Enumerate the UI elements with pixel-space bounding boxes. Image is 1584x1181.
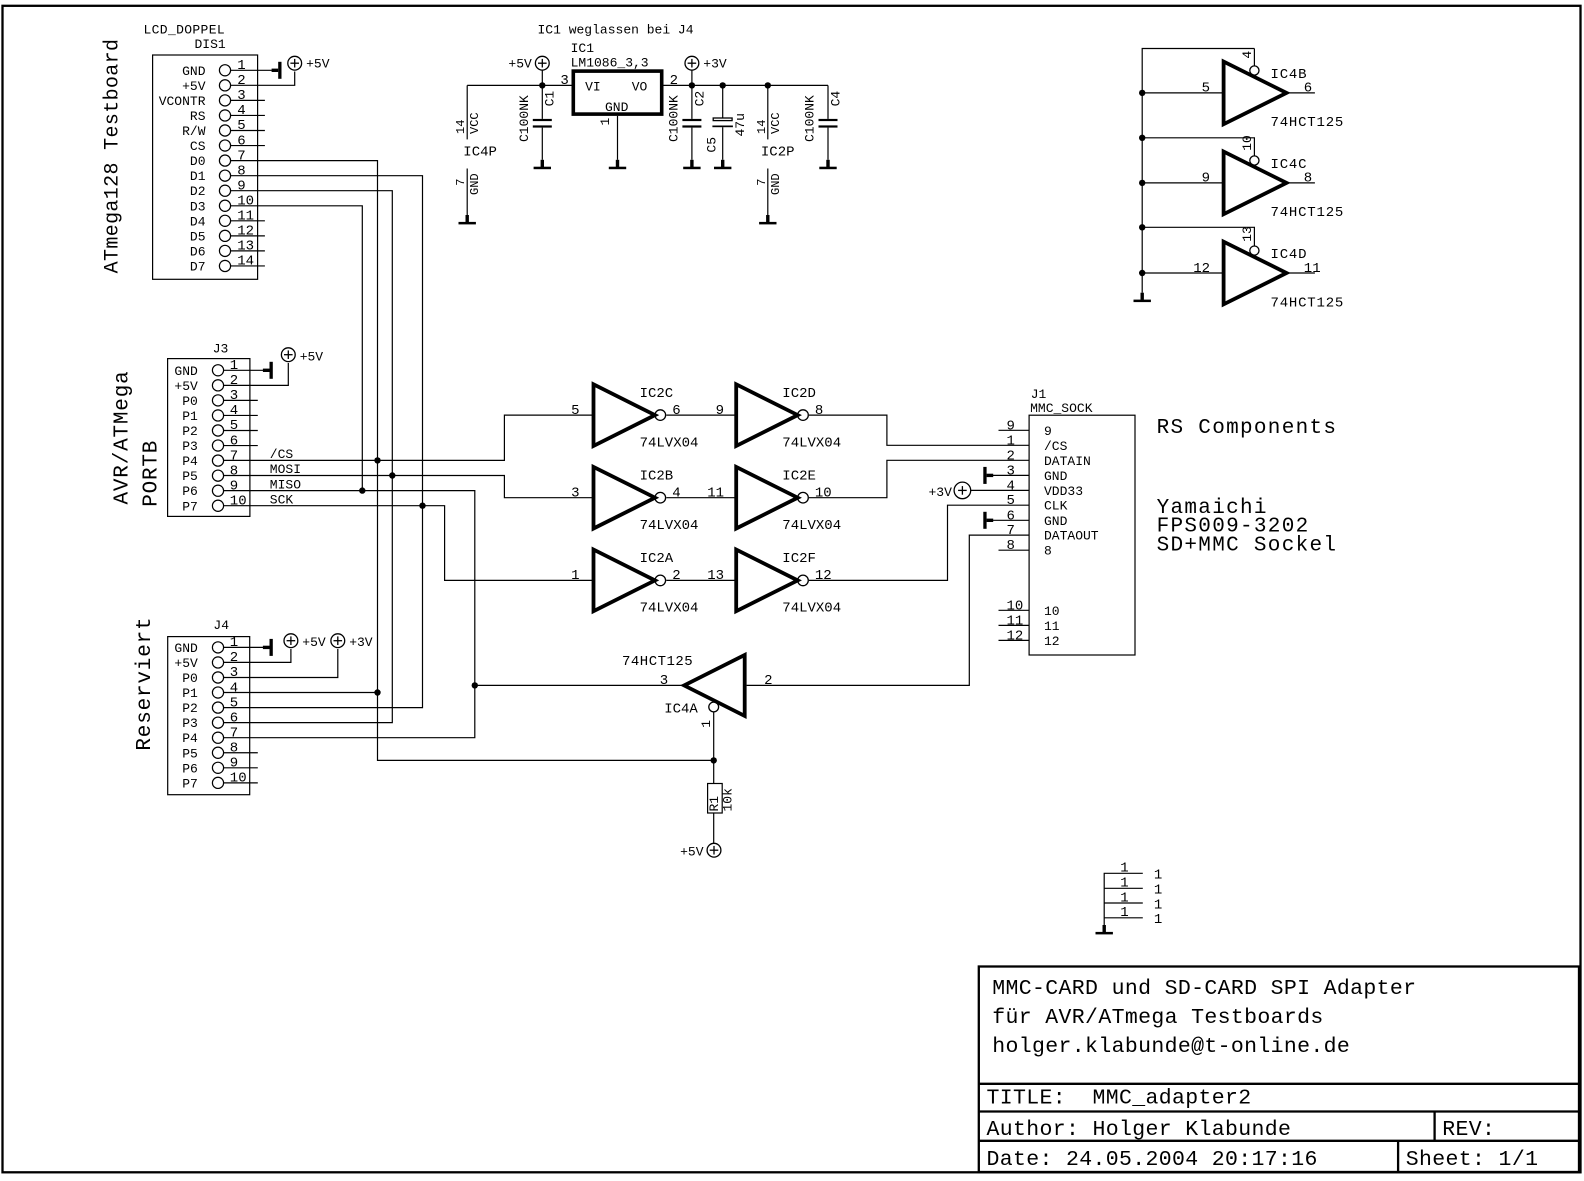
wire DIS1 pin1 GND and ground symbol	[231, 69, 272, 71]
DIS1 pin 10 (D3)	[219, 200, 230, 211]
junction MOSI at D2 vertical	[389, 472, 395, 478]
svg-text:SD+MMC Sockel: SD+MMC Sockel	[1157, 534, 1338, 557]
svg-text:8: 8	[230, 463, 238, 479]
junction SCK at D1 vertical	[419, 503, 425, 509]
svg-text:IC2P: IC2P	[761, 144, 795, 160]
J3 pin 3 (P0)	[212, 395, 223, 406]
svg-text:10: 10	[230, 771, 247, 787]
svg-text:IC2A: IC2A	[640, 551, 674, 567]
IC4B enable bubble	[1250, 66, 1259, 75]
DIS1 pin 8 (D1)	[219, 170, 230, 181]
svg-text:8: 8	[1044, 544, 1052, 559]
svg-text:Author: Holger Klabunde: Author: Holger Klabunde	[987, 1118, 1292, 1142]
svg-text:C2: C2	[692, 91, 707, 107]
buffer IC4A triangle (points left)	[684, 655, 745, 716]
svg-text:14: 14	[237, 254, 254, 270]
svg-text:10k: 10k	[721, 788, 736, 812]
svg-text:1: 1	[1120, 905, 1128, 921]
svg-text:4: 4	[672, 486, 680, 502]
svg-text:C5: C5	[705, 137, 720, 153]
junction rail at IC4D enable	[1139, 224, 1145, 230]
svg-text:IC2E: IC2E	[782, 468, 816, 484]
wire IC2A output to IC2F input	[666, 579, 736, 581]
wire input of IC4C	[1142, 182, 1223, 184]
svg-text:5: 5	[1202, 81, 1210, 97]
IC4D enable bubble	[1250, 246, 1259, 255]
ground below C1	[541, 160, 544, 167]
DIS1 pin 13 (D6)	[219, 245, 230, 256]
svg-text:3: 3	[230, 665, 238, 681]
svg-text:AVR/ATMega: AVR/ATMega	[111, 370, 134, 504]
wire output of IC4D	[1287, 272, 1315, 274]
inverter IC2D triangle	[736, 384, 798, 446]
svg-text:1: 1	[1120, 876, 1128, 892]
svg-text:4: 4	[230, 680, 238, 696]
J4 pin 8 (P5)	[212, 747, 223, 758]
svg-text:7: 7	[755, 179, 769, 186]
DIS1 pin 1 (GND)	[219, 65, 230, 76]
wire output of IC4B	[1287, 92, 1315, 94]
svg-text:9: 9	[1044, 424, 1052, 439]
svg-text:IC4D: IC4D	[1271, 247, 1308, 263]
svg-text:IC2B: IC2B	[640, 468, 674, 484]
wire +5V rail into IC1 VI	[467, 84, 571, 86]
supply +3V at J1 VDD33	[954, 482, 971, 499]
J3 pin 2 (+5V)	[212, 380, 223, 391]
DIS1 pin 5 (R/W)	[219, 125, 230, 136]
junction /CS at D0 vertical	[374, 457, 380, 463]
svg-text:47u: 47u	[733, 113, 748, 136]
J4 pin 10 (P7)	[212, 777, 223, 788]
wire IC2F output to J1 CLK pin 5	[809, 505, 1029, 580]
junction MISO at D3 vertical	[359, 487, 365, 493]
svg-text:D5: D5	[190, 229, 206, 244]
svg-text:9: 9	[230, 478, 238, 494]
svg-text:IC4B: IC4B	[1271, 67, 1308, 83]
wire IC2E output to J1 DATAIN pin 2	[809, 460, 1029, 497]
capacitor C5 47u electrolytic	[722, 85, 724, 117]
svg-text:74LVX04: 74LVX04	[782, 435, 841, 451]
wire SCK from J3 P7 to IC2A input	[223, 506, 593, 581]
svg-text:7: 7	[230, 725, 238, 741]
connector J3 box	[168, 359, 250, 517]
connector DIS1 box	[153, 55, 258, 279]
DIS1 pin 4 (RS)	[219, 110, 230, 121]
svg-text:11: 11	[1007, 613, 1024, 629]
J3 pin 9 (P6)	[212, 485, 223, 496]
svg-text:für AVR/ATmega Testboards: für AVR/ATmega Testboards	[992, 1006, 1323, 1030]
junction at +3V	[689, 82, 695, 88]
svg-text:P1: P1	[182, 686, 198, 701]
wire IC1 GND pin 1	[617, 116, 619, 160]
wire J3 pin2 to +5V	[223, 363, 288, 385]
J3 pin 4 (P1)	[212, 410, 223, 421]
svg-text:10: 10	[230, 493, 247, 509]
svg-text:9: 9	[1007, 418, 1015, 434]
svg-text:11: 11	[1044, 619, 1060, 634]
svg-text:P6: P6	[182, 484, 198, 499]
svg-text:IC2F: IC2F	[782, 551, 816, 567]
svg-text:GND: GND	[174, 641, 198, 656]
svg-text:7: 7	[230, 448, 238, 464]
J3 pin 10 (P7)	[212, 500, 223, 511]
svg-text:C100NK: C100NK	[517, 95, 532, 142]
svg-text:LM1086_3,3: LM1086_3,3	[571, 55, 649, 70]
svg-text:5: 5	[1007, 493, 1015, 509]
svg-text:1: 1	[1154, 897, 1162, 913]
svg-text:+5V: +5V	[182, 79, 206, 94]
shield pins connector (4 stubs labelled 1)	[1104, 873, 1143, 925]
supply +3V at J4	[331, 634, 345, 648]
svg-text:VI: VI	[585, 79, 601, 94]
svg-text:P3: P3	[182, 439, 198, 454]
supply +3V above C2	[685, 56, 699, 70]
svg-text:6: 6	[672, 403, 680, 419]
wire J3 pin1 GND and ground symbol	[224, 369, 264, 371]
svg-text:1: 1	[237, 58, 245, 74]
svg-text:holger.klabunde@t-online.de: holger.klabunde@t-online.de	[992, 1035, 1350, 1059]
svg-text:1: 1	[1154, 912, 1162, 928]
title block outer box	[979, 967, 1579, 1173]
wire input of IC4D	[1142, 272, 1223, 274]
svg-text:12: 12	[1193, 261, 1210, 277]
ground below shield pins	[1103, 925, 1106, 932]
svg-text:P2: P2	[182, 701, 198, 716]
svg-text:10: 10	[1044, 604, 1060, 619]
svg-text:P0: P0	[182, 394, 198, 409]
svg-text:C100NK: C100NK	[666, 95, 681, 142]
svg-text:5: 5	[230, 418, 238, 434]
svg-text:8: 8	[237, 163, 245, 179]
svg-text:13: 13	[707, 568, 724, 584]
svg-text:GND: GND	[182, 64, 206, 79]
svg-text:IC1: IC1	[571, 41, 595, 56]
svg-text:74LVX04: 74LVX04	[640, 601, 699, 617]
capacitor C4 100nF	[827, 85, 829, 119]
title block Sheet divider	[1397, 1141, 1399, 1172]
wire J4 P1 to /CS vertical	[223, 692, 377, 694]
svg-text:DIS1: DIS1	[195, 37, 226, 52]
svg-text:74LVX04: 74LVX04	[782, 518, 841, 534]
shield stub 3	[1104, 902, 1143, 904]
power symbol IC2P GND pin	[767, 169, 769, 216]
svg-text:12: 12	[237, 224, 254, 240]
ground below IC1	[616, 160, 619, 167]
J3 pin 8 (P5)	[212, 470, 223, 481]
wire IC4C enable	[1142, 138, 1254, 156]
svg-text:MMC-CARD und SD-CARD SPI Adapt: MMC-CARD und SD-CARD SPI Adapter	[992, 977, 1416, 1001]
J4 pin 9 (P6)	[212, 762, 223, 773]
svg-text:1: 1	[1120, 861, 1128, 877]
svg-text:D7: D7	[190, 259, 206, 274]
svg-text:+5V: +5V	[680, 844, 704, 859]
svg-text:DATAOUT: DATAOUT	[1044, 529, 1099, 544]
svg-text:P5: P5	[182, 746, 198, 761]
svg-text:VCONTR: VCONTR	[159, 94, 206, 109]
svg-text:74HCT125: 74HCT125	[1271, 295, 1345, 311]
svg-text:3: 3	[237, 88, 245, 104]
svg-text:3: 3	[560, 73, 568, 89]
wire IC2C output to IC2D input	[666, 414, 736, 416]
svg-text:6: 6	[230, 710, 238, 726]
svg-text:P7: P7	[182, 499, 198, 514]
svg-text:VCC: VCC	[769, 112, 783, 134]
svg-text:DATAIN: DATAIN	[1044, 454, 1091, 469]
DIS1 pin 9 (D2)	[219, 185, 230, 196]
svg-text:IC4P: IC4P	[463, 144, 497, 160]
inverter IC2D output bubble	[798, 410, 809, 421]
svg-text:14: 14	[755, 120, 769, 134]
wire +3V to J1 pin4	[971, 489, 1029, 491]
svg-text:+5V: +5V	[302, 635, 326, 650]
wire J1 pin3 GND and ground symbol	[983, 467, 986, 484]
DIS1 pin 2 (+5V)	[219, 80, 230, 91]
svg-text:P5: P5	[182, 469, 198, 484]
svg-text:C1: C1	[543, 91, 558, 107]
J3 pin 1 (GND)	[212, 365, 223, 376]
ground below C4	[826, 160, 829, 167]
svg-text:4: 4	[230, 403, 238, 419]
J4 pin 1 (GND)	[212, 642, 223, 653]
regulator IC1 box	[573, 71, 661, 114]
svg-text:13: 13	[1240, 226, 1255, 242]
wire IC1 VO output rail	[664, 84, 829, 86]
junction rail at IC4C enable	[1139, 135, 1145, 141]
power symbol IC2P VCC pin	[767, 85, 769, 139]
J4 pin 4 (P1)	[212, 687, 223, 698]
svg-text:74LVX04: 74LVX04	[640, 435, 699, 451]
svg-text:Sheet: 1/1: Sheet: 1/1	[1406, 1148, 1539, 1172]
supply +5V above C1	[535, 56, 549, 70]
svg-text:2: 2	[1007, 448, 1015, 464]
svg-text:PORTB: PORTB	[140, 440, 163, 507]
shield stub 4	[1104, 917, 1143, 919]
wire J4 pin3 to +3V	[223, 649, 337, 678]
svg-text:RS Components: RS Components	[1157, 417, 1338, 440]
svg-text:11: 11	[1304, 261, 1321, 277]
junction /CS at J4 P1	[374, 689, 380, 695]
svg-text:2: 2	[237, 73, 245, 89]
svg-text:8: 8	[1304, 171, 1312, 187]
wire IC4D enable	[1142, 227, 1254, 246]
svg-text:5: 5	[237, 118, 245, 134]
IC4C enable bubble	[1250, 156, 1259, 165]
inverter IC2C output bubble	[655, 410, 666, 421]
svg-text:9: 9	[1202, 171, 1210, 187]
DIS1 pin 6 (CS)	[219, 140, 230, 151]
wire +5V symbol to rail	[541, 70, 543, 85]
svg-text:P7: P7	[182, 776, 198, 791]
DIS1 pin 12 (D5)	[219, 230, 230, 241]
svg-text:74HCT125: 74HCT125	[622, 654, 693, 670]
svg-text:GND: GND	[468, 173, 482, 195]
svg-text:7: 7	[454, 179, 468, 186]
ground below IC4P	[466, 215, 469, 222]
svg-text:J1: J1	[1031, 387, 1047, 402]
inverter IC2E triangle	[736, 467, 798, 529]
junction /CS at IC4A enable and R1	[711, 757, 717, 763]
svg-text:74LVX04: 74LVX04	[640, 518, 699, 534]
buffer IC4C triangle	[1224, 152, 1287, 215]
wire J4 pin2 to +5V	[223, 649, 291, 662]
svg-text:14: 14	[454, 120, 468, 134]
svg-text:/CS: /CS	[1044, 439, 1068, 454]
svg-text:1: 1	[1154, 883, 1162, 899]
svg-text:74HCT125: 74HCT125	[1271, 115, 1345, 131]
svg-text:4: 4	[1240, 51, 1255, 59]
svg-text:10: 10	[237, 193, 254, 209]
svg-text:IC4C: IC4C	[1271, 157, 1308, 173]
buffer IC4D triangle	[1224, 242, 1287, 305]
svg-text:6: 6	[1007, 508, 1015, 524]
wire MISO from J3 P6	[223, 491, 474, 738]
junction at C1/+5V	[539, 82, 545, 88]
svg-text:P0: P0	[182, 671, 198, 686]
wire R1 to +5V	[713, 813, 715, 843]
svg-text:3: 3	[1007, 463, 1015, 479]
svg-text:4: 4	[1007, 478, 1015, 494]
J4 pin 6 (P3)	[212, 717, 223, 728]
svg-text:P6: P6	[182, 761, 198, 776]
J4 pin 5 (P2)	[212, 702, 223, 713]
IC4A enable bubble	[709, 702, 719, 712]
svg-text:10: 10	[815, 486, 832, 502]
ground below C5	[721, 160, 724, 167]
connector J1 box	[1029, 415, 1135, 655]
wire IC4A input from J1 DATAOUT	[747, 535, 1030, 685]
svg-text:7: 7	[1007, 523, 1015, 539]
wire output of IC4C	[1287, 182, 1315, 184]
svg-text:+5V: +5V	[300, 350, 324, 365]
J3 pin 7 (P4)	[212, 455, 223, 466]
junction rail at IC4D input	[1139, 270, 1145, 276]
inverter IC2C triangle	[594, 384, 656, 446]
svg-text:6: 6	[230, 433, 238, 449]
buffer IC4B triangle	[1224, 62, 1287, 125]
svg-text:GND: GND	[769, 173, 783, 195]
svg-text:6: 6	[237, 133, 245, 149]
DIS1 pin 3 (VCONTR)	[219, 95, 230, 106]
wire net /CS from DIS1 D0	[230, 161, 713, 761]
svg-text:2: 2	[230, 650, 238, 666]
svg-text:P4: P4	[182, 731, 198, 746]
svg-text:GND: GND	[174, 364, 198, 379]
wire IC4A output (MISO)	[475, 684, 684, 686]
svg-text:10: 10	[1007, 598, 1024, 614]
title block line above Author row	[979, 1110, 1579, 1112]
svg-text:8: 8	[1007, 538, 1015, 554]
svg-text:LCD_DOPPEL: LCD_DOPPEL	[144, 23, 226, 38]
svg-text:1: 1	[571, 568, 579, 584]
svg-text:1: 1	[1120, 890, 1128, 906]
svg-text:D6: D6	[190, 244, 206, 259]
svg-text:12: 12	[1007, 628, 1024, 644]
supply +5V at J3	[281, 348, 295, 362]
svg-text:REV:: REV:	[1442, 1118, 1495, 1142]
svg-text:+3V: +3V	[928, 485, 952, 500]
power symbol IC4P VCC pin	[466, 85, 468, 139]
svg-text:8: 8	[230, 740, 238, 756]
resistor R1 box	[708, 784, 723, 814]
J3 pin 6 (P3)	[212, 440, 223, 451]
junction at C5	[720, 82, 726, 88]
svg-text:12: 12	[1044, 634, 1060, 649]
svg-text:1: 1	[1154, 868, 1162, 884]
title block line above Date row	[979, 1140, 1579, 1142]
svg-text:+5V: +5V	[174, 379, 198, 394]
svg-text:Reserviert: Reserviert	[134, 617, 157, 751]
inverter IC2B output bubble	[655, 492, 666, 503]
svg-text:8: 8	[815, 403, 823, 419]
svg-text:RS: RS	[190, 109, 206, 124]
wire input of IC4B	[1142, 92, 1223, 94]
wire +3V symbol to rail	[691, 70, 693, 85]
J4 pin 3 (P0)	[212, 672, 223, 683]
junction rail at IC4C input	[1139, 180, 1145, 186]
wire IC2B output to IC2E input	[666, 497, 736, 499]
svg-text:D4: D4	[190, 214, 206, 229]
svg-text:11: 11	[237, 209, 254, 225]
svg-text:+5V: +5V	[174, 656, 198, 671]
inverter IC2A triangle	[594, 550, 656, 612]
svg-text:P2: P2	[182, 424, 198, 439]
ground symbol at IC4 rail	[1141, 293, 1144, 300]
wire J1 pin6 GND and ground symbol	[983, 512, 986, 529]
junction at IC2P VCC	[765, 82, 771, 88]
svg-text:VDD33: VDD33	[1044, 484, 1083, 499]
svg-text:+5V: +5V	[306, 57, 330, 72]
wire net MOSI from DIS1 D2	[223, 191, 392, 723]
J3 pin 5 (P2)	[212, 425, 223, 436]
ground below C2	[690, 160, 693, 167]
svg-text:ATmega128 Testboard: ATmega128 Testboard	[102, 39, 125, 274]
supply +5V at DIS1	[288, 56, 302, 70]
svg-text:J4: J4	[213, 618, 229, 633]
svg-text:C4: C4	[828, 91, 843, 107]
svg-text:6: 6	[1304, 81, 1312, 97]
svg-text:2: 2	[230, 373, 238, 389]
svg-text:IC4A: IC4A	[664, 701, 698, 717]
inverter IC2F output bubble	[798, 575, 809, 586]
supply +5V below R1	[707, 843, 721, 857]
svg-text:Date: 24.05.2004 20:17:16: Date: 24.05.2004 20:17:16	[987, 1148, 1318, 1172]
svg-text:9: 9	[237, 178, 245, 194]
wire net SCK from DIS1 D1	[223, 176, 422, 708]
svg-text:3: 3	[660, 673, 668, 689]
wire /CS from J3 P4 to IC2C input	[223, 415, 593, 460]
svg-text:+3V: +3V	[703, 57, 727, 72]
ground below IC2P	[766, 215, 769, 222]
svg-text:D2: D2	[190, 184, 206, 199]
wire IC2D output to J1 /CS pin 1	[809, 415, 1029, 445]
svg-text:4: 4	[237, 103, 245, 119]
svg-text:J3: J3	[213, 342, 229, 357]
inverter IC2B triangle	[594, 467, 656, 529]
svg-text:VO: VO	[632, 79, 648, 94]
junction MISO at IC4A output	[472, 682, 478, 688]
svg-text:VCC: VCC	[468, 112, 482, 134]
wire IC4B enable	[1253, 49, 1255, 67]
J4 pin 2 (+5V)	[212, 657, 223, 668]
svg-text:C100NK: C100NK	[803, 95, 818, 142]
svg-text:GND: GND	[1044, 469, 1068, 484]
svg-text:CS: CS	[190, 139, 206, 154]
svg-text:74HCT125: 74HCT125	[1271, 205, 1345, 221]
title block REV divider	[1433, 1112, 1435, 1141]
svg-text:CLK: CLK	[1044, 499, 1068, 514]
connector J4 box	[168, 637, 250, 795]
svg-text:IC1 weglassen bei J4: IC1 weglassen bei J4	[538, 22, 694, 37]
